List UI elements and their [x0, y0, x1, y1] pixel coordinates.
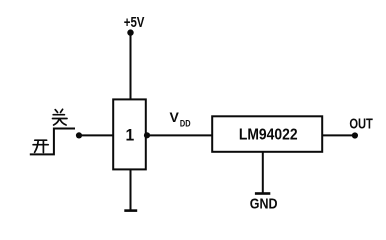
label 开 (on) hand-drawn glyph: [33, 140, 48, 152]
svg-text:1: 1: [126, 126, 135, 144]
ground (below switch block): [124, 209, 137, 212]
wire: switch block output to LM94022 VDD pin: [146, 134, 212, 136]
svg-text:V: V: [170, 109, 180, 125]
label OUT: [349, 115, 373, 132]
wire: LM94022 OUT pin: [322, 134, 355, 136]
svg-text:+5V: +5V: [124, 14, 145, 31]
net label VDD: [170, 109, 191, 129]
ground (below LM94022): [255, 192, 270, 195]
svg-text:DD: DD: [180, 119, 191, 129]
label GND: [250, 195, 278, 211]
wire: LM94022 GND pin down to ground: [262, 152, 264, 193]
power label +5V: [124, 14, 145, 31]
wire: switch block bottom pin to ground: [130, 169, 132, 210]
node: VDD junction dot on switch block output: [144, 132, 150, 138]
label 关 (off) hand-drawn glyph: [53, 109, 68, 125]
svg-text:LM94022: LM94022: [239, 127, 298, 144]
svg-text:GND: GND: [250, 195, 278, 211]
node: control input junction dot: [76, 132, 82, 138]
node: OUT terminal dot: [352, 132, 358, 138]
wire: control input to switch block left pin: [79, 134, 113, 136]
control step waveform (low to high): [30, 129, 75, 155]
node: +5V supply terminal dot: [127, 29, 133, 35]
switch block U1 (box labelled 1): [113, 99, 146, 169]
IC label LM94022: [239, 127, 298, 144]
wire: +5V down to switch block top pin: [130, 33, 132, 100]
svg-text:OUT: OUT: [349, 115, 373, 132]
IC U2 LM94022 body: [212, 116, 322, 152]
pin/value label 1: [126, 126, 135, 144]
